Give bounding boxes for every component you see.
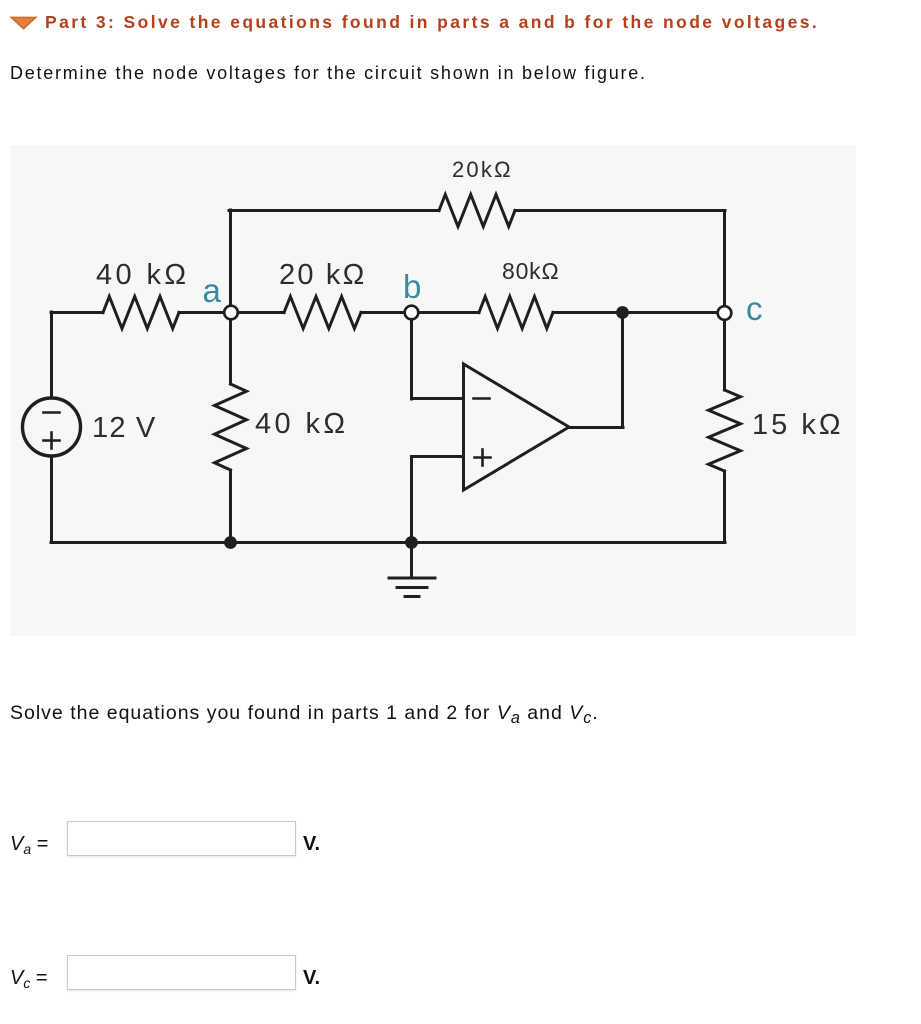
wire: right vertical from feedback rail down to node c: [723, 211, 726, 314]
source plus sign: [44, 433, 60, 449]
resistor R 15k vertical: [709, 390, 741, 471]
junction dot at ground stub on ground rail: [405, 536, 418, 549]
svg-text:40 kΩ: 40 kΩ: [255, 408, 349, 440]
node c open terminal: [718, 306, 732, 320]
answer row Va: [10, 833, 48, 856]
question line: [10, 702, 599, 725]
junction dot at op-amp output on rail: [616, 306, 629, 319]
resistor R 80k: [479, 297, 553, 329]
wire: top-left vertical from node a to feedback rail: [229, 210, 232, 312]
wire: left rail vertical upper (to source top): [50, 312, 53, 398]
svg-text:20 kΩ: 20 kΩ: [279, 259, 367, 291]
node b open terminal: [405, 306, 419, 320]
wire: bottom ground rail: [51, 541, 725, 544]
voltage source VS 12V circle: [23, 398, 81, 456]
op-amp plus label: [475, 450, 491, 466]
svg-text:15 kΩ: 15 kΩ: [752, 409, 844, 441]
wire: top feedback rail right segment: [515, 209, 725, 212]
circuit figure: [10, 145, 856, 636]
wire: 20k to node b: [361, 311, 412, 314]
resistor R 20k series: [284, 297, 361, 329]
wire: left rail horizontal to 40k: [51, 311, 103, 314]
wire: node c down to 15k: [723, 313, 726, 390]
wire: ground stub: [410, 542, 413, 577]
node a open terminal: [224, 306, 238, 320]
input field Va: [67, 821, 296, 856]
wire: output junction up to node c rail: [621, 312, 624, 428]
ground symbol: [389, 578, 435, 597]
resistor 20k feedback: [439, 195, 515, 227]
svg-text:b: b: [403, 268, 421, 305]
wire: node b to 80k: [412, 311, 479, 314]
wire: non-inverting input down to ground rail: [410, 457, 413, 543]
op-amp minus label: [474, 397, 490, 400]
junction dot at 40k vertical on ground rail: [224, 536, 237, 549]
wire: top feedback rail left segment: [229, 209, 439, 212]
wire: 15k to ground rail: [723, 471, 726, 542]
svg-text:a: a: [203, 272, 222, 309]
op-amp U1 triangle: [464, 364, 570, 490]
wire: horizontal from op-amp non-inverting input: [412, 455, 464, 458]
svg-text:20kΩ: 20kΩ: [452, 157, 513, 182]
figure background panel: [10, 145, 856, 636]
wire: op-amp output to junction: [569, 426, 623, 429]
resistor R 40k horizontal: [103, 297, 179, 329]
title: [45, 12, 819, 33]
svg-text:c: c: [746, 290, 763, 327]
wire: 80k to node c through output junction: [553, 311, 725, 314]
wire: horizontal into op-amp inverting input: [412, 397, 464, 400]
answer row Vc: [10, 967, 48, 990]
section arrow: [10, 16, 38, 32]
prompt line: [10, 63, 647, 84]
svg-text:12 V: 12 V: [92, 412, 156, 444]
input field Vc: [67, 955, 296, 990]
svg-text:40 kΩ: 40 kΩ: [96, 259, 190, 291]
svg-text:80kΩ: 80kΩ: [502, 258, 559, 284]
wire: 40k to node a: [179, 311, 231, 314]
wire: node b down to inverting input: [410, 312, 413, 399]
resistor R 40k vertical: [215, 384, 247, 470]
wire: left rail vertical lower (source bottom to ground rail): [50, 456, 53, 542]
wire: node a down to 40k vertical: [229, 312, 232, 384]
wire: node a to 20k: [231, 311, 284, 314]
source minus sign: [44, 411, 60, 414]
wire: 40k vertical to ground rail: [229, 470, 232, 542]
